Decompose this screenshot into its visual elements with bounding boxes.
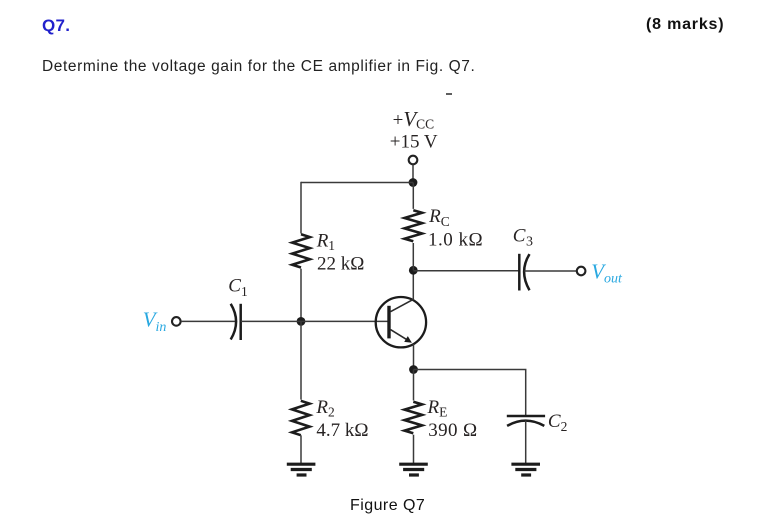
svg-text:R2: R2 — [315, 397, 334, 420]
ground below C2 — [511, 464, 540, 475]
wire R1 to base node — [300, 269, 302, 322]
capacitor C2 — [507, 416, 545, 426]
capacitor C3 — [519, 254, 529, 291]
capacitor C1 — [231, 304, 241, 340]
svg-text:22 kΩ: 22 kΩ — [317, 254, 364, 275]
svg-text:+VCC: +VCC — [393, 107, 435, 132]
transistor Q1 — [376, 297, 426, 347]
svg-text:4.7 kΩ: 4.7 kΩ — [316, 420, 368, 441]
stray dash — [446, 93, 452, 95]
resistor RE — [404, 402, 422, 433]
node emitter junction — [409, 365, 418, 374]
resistor R1 — [292, 234, 310, 267]
ground below RE — [399, 464, 428, 475]
wire emitter node to RE — [413, 370, 415, 401]
svg-text:1.0 kΩ: 1.0 kΩ — [428, 229, 483, 250]
heading Q7. — [42, 16, 70, 36]
input terminal Vin — [172, 317, 181, 326]
wire base node to R2 — [300, 321, 302, 399]
svg-text:RC: RC — [428, 206, 450, 229]
resistor R2 — [292, 401, 310, 435]
svg-text:Vout: Vout — [591, 259, 623, 286]
svg-text:C3: C3 — [513, 225, 533, 249]
svg-text:RE: RE — [427, 397, 448, 420]
svg-text:C2: C2 — [548, 411, 567, 434]
output terminal Vout — [577, 267, 586, 276]
marks label — [646, 16, 724, 34]
wire C2 to ground — [525, 421, 527, 464]
wire collector up — [412, 270, 414, 299]
problem statement — [42, 58, 475, 76]
svg-text:390 Ω: 390 Ω — [428, 420, 477, 441]
svg-text:R1: R1 — [316, 231, 335, 254]
+Vcc supply terminal — [409, 156, 418, 165]
node base junction — [297, 317, 306, 326]
resistor RC — [404, 210, 422, 241]
ground below R2 — [287, 464, 316, 475]
node collector junction — [409, 266, 418, 275]
svg-text:C1: C1 — [228, 276, 247, 299]
svg-text:Vin: Vin — [143, 308, 167, 335]
wire emitter down — [413, 344, 415, 370]
figure caption — [350, 497, 425, 515]
wire collector to C3 — [413, 270, 519, 272]
wire C1 to base — [241, 320, 388, 322]
wire left branch top — [300, 182, 302, 234]
wire emitter node to C2 branch — [414, 370, 526, 416]
wire C3 to Vout — [524, 270, 576, 272]
wire R2 to ground — [300, 435, 302, 463]
wire RE to ground — [413, 435, 415, 463]
wire RC bottom — [412, 243, 414, 270]
node supply junction — [409, 178, 418, 187]
svg-text:+15 V: +15 V — [390, 131, 438, 152]
wire RC top — [412, 183, 414, 209]
wire top rail — [301, 182, 413, 184]
wire supply drop — [412, 164, 414, 182]
wire Vin to C1 — [181, 320, 237, 322]
